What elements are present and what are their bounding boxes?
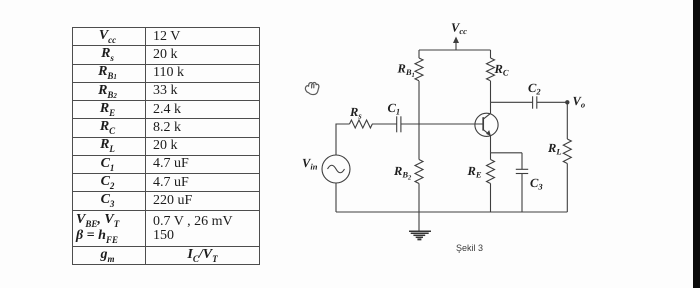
capacitor C3 [516,169,528,173]
wire emitter to RE [490,153,492,160]
Vcc supply arrow [453,37,459,51]
wire C1 to base [401,123,483,125]
resistor RB2 [415,160,423,184]
wire RB1 bottom to base node [418,81,420,124]
svg-text:Vin: Vin [302,156,318,172]
svg-text:RB2: RB2 [393,164,412,182]
wire top rail [419,49,491,51]
wire Vin top [336,124,350,155]
resistor RC [487,58,495,81]
svg-text:RB1: RB1 [397,62,415,80]
wire RC bottom to collector node [490,81,492,102]
wire C2 to output node [537,101,568,103]
svg-text:Vcc: Vcc [451,21,467,37]
wire C3 top [521,153,523,170]
wire RE bottom [490,184,492,213]
svg-text:C2: C2 [528,81,541,97]
svg-text:RC: RC [494,62,509,78]
wire RB1 top [418,50,420,58]
wire collector node to C2 [491,101,533,103]
svg-text:C1: C1 [388,101,401,117]
svg-text:Vo: Vo [573,94,586,110]
resistor Rs [350,120,373,128]
wire RC top [490,50,492,58]
figure caption [456,243,483,253]
wire Vo to RL [566,102,568,139]
svg-text:Rs: Rs [349,105,362,121]
wire RL bottom [566,164,568,213]
table of component values [72,27,260,265]
resistor RB1 [415,58,423,81]
transistor Q1 [475,113,498,136]
svg-text:RE: RE [467,164,482,180]
wire emitter down [490,136,492,153]
svg-text:C3: C3 [530,176,543,192]
ground [409,231,431,239]
hand cursor icon [305,83,319,95]
resistor RL [563,139,571,164]
node Vo [565,100,569,104]
wire Rs to C1 [372,123,397,125]
source Vin [322,155,350,183]
capacitor C2 [533,96,537,108]
capacitor C1 [397,116,401,132]
resistor RE [487,160,495,184]
wire C3 bottom [521,174,523,213]
wire emitter node to C3 branch [491,152,523,154]
svg-text:RL: RL [547,141,562,157]
wire ground stem [418,212,420,231]
wire collector up [490,102,492,113]
wire bottom rail [336,211,567,213]
wire Vin bottom [335,183,337,212]
wire base node to RB2 [418,124,420,160]
wire RB2 bottom [418,184,420,213]
